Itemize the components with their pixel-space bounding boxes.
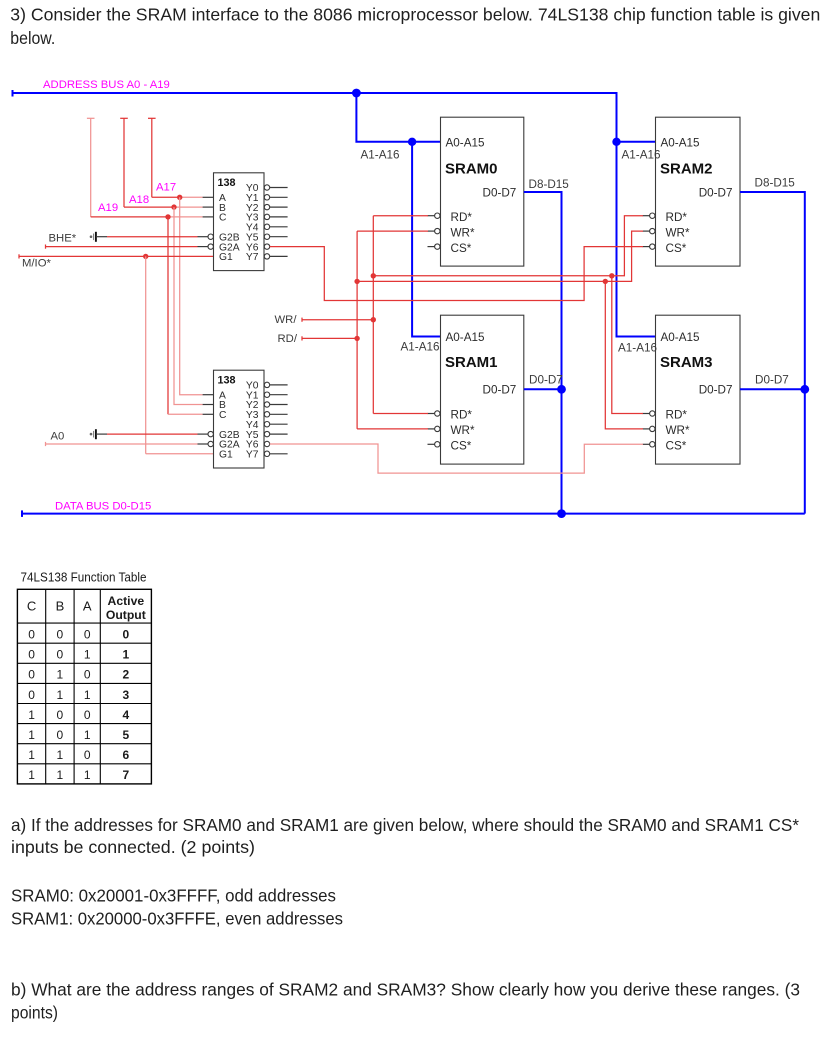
svg-text:C: C (27, 599, 36, 614)
wire bus branch down to SRAM3 A1-A16 (617, 142, 656, 337)
wire to U1 G2A (45, 245, 47, 249)
svg-text:74LS138 Function Table: 74LS138 Function Table (21, 571, 147, 585)
svg-text:0: 0 (57, 708, 64, 722)
wire A18 tap vertical (120, 117, 128, 119)
svg-text:A1-A16: A1-A16 (622, 148, 661, 161)
svg-text:RD*: RD* (666, 211, 688, 224)
svg-text:D8-D15: D8-D15 (529, 178, 570, 191)
SRAM chip SRAM2 box (656, 117, 741, 266)
svg-text:0: 0 (57, 728, 64, 742)
svg-text:7: 7 (123, 768, 130, 782)
SRAM3 control pin stubs and bubbles (643, 413, 650, 415)
SRAM0 control pin stubs and bubbles (428, 215, 435, 217)
function table grid (17, 589, 151, 784)
svg-text:A0-A15: A0-A15 (446, 331, 485, 344)
svg-text:Y7: Y7 (246, 252, 259, 263)
node WR cross branch (603, 279, 608, 284)
svg-text:D0-D7: D0-D7 (699, 384, 733, 397)
svg-text:A1-A16: A1-A16 (361, 148, 400, 161)
wire SRAM1 D0-D7 to data bus (524, 388, 562, 390)
SRAM1 control pin stubs and bubbles (428, 413, 435, 415)
svg-text:0: 0 (28, 688, 35, 702)
svg-text:SRAM2: SRAM2 (660, 160, 713, 177)
svg-text:0: 0 (28, 628, 35, 642)
svg-text:WR*: WR* (666, 226, 690, 239)
wire A17 down to decoder U2 pin A (180, 197, 203, 394)
U2 enable stubs and bubbles G2B G2A (198, 433, 209, 435)
svg-text:DATA BUS D0-D15: DATA BUS D0-D15 (55, 500, 151, 512)
node at SRAM2 address branch (612, 138, 620, 146)
svg-text:SRAM1: 0x20000-0x3FFFE, even a: SRAM1: 0x20000-0x3FFFE, even addresses (11, 908, 343, 928)
wire A19 tap vertical (87, 117, 95, 119)
U1 enable stubs and bubbles G2B G2A (198, 236, 209, 238)
svg-text:CS*: CS* (451, 242, 472, 255)
svg-text:G1: G1 (219, 252, 233, 263)
op-amp substitute: decoder U2 74LS138 box (214, 370, 265, 468)
wire SRAM2 D0-D7 to data bus D8-D15 (740, 192, 805, 514)
op-amp substitute: decoder U1 74LS138 box (214, 173, 265, 271)
svg-text:SRAM0: SRAM0 (445, 160, 498, 177)
node at SRAM0 address branch (408, 138, 416, 146)
svg-text:0: 0 (28, 648, 35, 662)
U1 input stubs A B C (203, 196, 214, 198)
svg-text:WR*: WR* (451, 424, 475, 437)
wire A19 down to decoder U2 pin C (167, 217, 169, 414)
wire bus to SRAM2 A0-A15 pin (617, 141, 656, 143)
node RD cross branch (609, 273, 614, 278)
wire SRAM1 WR* (357, 428, 428, 430)
wire M/IO* down to U2 G1 (145, 256, 147, 453)
svg-text:A18: A18 (129, 194, 149, 206)
svg-text:C: C (219, 410, 227, 421)
wire BHE* to U1 G2B (96, 236, 107, 238)
svg-text:1: 1 (84, 768, 91, 782)
svg-text:3: 3 (123, 688, 130, 702)
wire to U2 G2A (45, 442, 47, 446)
svg-text:0: 0 (57, 648, 64, 662)
svg-text:3) Consider the SRAM interface: 3) Consider the SRAM interface to the 80… (10, 5, 820, 25)
svg-text:1: 1 (28, 708, 35, 722)
svg-text:M/IO*: M/IO* (22, 257, 51, 269)
wire SRAM0 WR* vertical (357, 230, 428, 232)
U1 output bubbles and stubs Y0-Y7 (264, 185, 269, 190)
svg-text:1: 1 (28, 728, 35, 742)
svg-text:4: 4 (123, 708, 130, 722)
wire A17 to decoder U1 pin A (152, 196, 180, 198)
wire SRAM3 D0-D7 to data bus (740, 388, 805, 390)
SRAM chip SRAM0 box (441, 117, 524, 266)
svg-text:SRAM3: SRAM3 (660, 354, 713, 371)
svg-text:2: 2 (123, 668, 130, 682)
wire M/IO* to U1 G1 (18, 254, 20, 258)
svg-text:A17: A17 (156, 182, 176, 194)
svg-text:b) What are the address ranges: b) What are the address ranges of SRAM2 … (11, 979, 800, 999)
svg-text:WR/: WR/ (275, 314, 298, 326)
wire WR cross to SRAM2 WR* (357, 231, 643, 281)
BHE* connector symbol (90, 235, 93, 238)
junction node A19/U2-C (165, 214, 170, 219)
wire RD/ feed (301, 336, 303, 340)
node on WR cross wire left (354, 279, 359, 284)
node SRAM1 data join (557, 385, 566, 394)
svg-text:Y7: Y7 (246, 450, 259, 461)
svg-text:5: 5 (123, 728, 130, 742)
svg-text:SRAM0: 0x20001-0x3FFFF, odd ad: SRAM0: 0x20001-0x3FFFF, odd addresses (11, 885, 336, 905)
wire U1 Y6 to SRAM2 CS* (270, 247, 643, 301)
node data bus join (557, 509, 566, 518)
wire down to SRAM3 RD* (612, 276, 643, 414)
SRAM chip SRAM1 box (441, 315, 524, 464)
wire bus to SRAM0 A1-A16 (356, 93, 440, 142)
svg-text:CS*: CS* (666, 242, 687, 255)
svg-text:inputs be connected. (2 points: inputs be connected. (2 points) (11, 837, 255, 857)
wire A0 to U2 G2B (96, 433, 107, 435)
wire A17 tap vertical (148, 117, 156, 119)
svg-text:A0: A0 (51, 430, 65, 442)
svg-text:CS*: CS* (666, 440, 687, 453)
svg-text:0: 0 (84, 628, 91, 642)
address bus A0-A19 top wire (12, 90, 14, 97)
svg-text:WR*: WR* (666, 424, 690, 437)
svg-text:138: 138 (218, 375, 236, 387)
svg-text:A19: A19 (98, 202, 118, 214)
svg-text:D0-D7: D0-D7 (483, 384, 517, 397)
svg-text:0: 0 (28, 668, 35, 682)
svg-text:D0-D7: D0-D7 (529, 374, 563, 387)
svg-text:0: 0 (84, 708, 91, 722)
svg-text:RD*: RD* (451, 211, 473, 224)
wire SRAM1 RD* (373, 413, 428, 415)
wire SRAM0 D0-D7 to data bus D8-D15 (524, 192, 562, 514)
svg-text:Output: Output (106, 608, 146, 622)
svg-text:D0-D7: D0-D7 (699, 186, 733, 199)
svg-text:1: 1 (57, 748, 64, 762)
SRAM2 control pin stubs and bubbles (643, 215, 650, 217)
svg-text:C: C (219, 213, 227, 224)
wire down to SRAM3 WR* (605, 281, 643, 429)
svg-text:0: 0 (84, 748, 91, 762)
junction node M/IO* (143, 254, 148, 259)
svg-text:A1-A16: A1-A16 (618, 342, 657, 355)
svg-text:WR*: WR* (451, 226, 475, 239)
node SRAM3 data join (800, 385, 809, 394)
svg-text:1: 1 (57, 688, 64, 702)
node WR/ join (371, 317, 376, 322)
data bus D0-D15 wire (21, 510, 23, 517)
svg-text:1: 1 (84, 648, 91, 662)
svg-text:A0-A15: A0-A15 (661, 136, 700, 149)
svg-text:1: 1 (84, 728, 91, 742)
junction node A17/U2-A (177, 195, 182, 200)
wire WR/ feed (301, 318, 303, 322)
svg-text:B: B (56, 599, 65, 614)
wire SRAM0 RD* vertical (373, 215, 428, 217)
svg-text:D0-D7: D0-D7 (483, 186, 517, 199)
address bus junction node (352, 89, 361, 98)
node on RD cross wire left (371, 273, 376, 278)
svg-text:1: 1 (84, 688, 91, 702)
svg-text:Active: Active (108, 594, 145, 608)
svg-text:D0-D7: D0-D7 (755, 374, 789, 387)
wire A18 down to decoder U2 pin B (174, 207, 203, 404)
svg-text:0: 0 (123, 628, 130, 642)
svg-text:1: 1 (28, 768, 35, 782)
wire A19 to decoder U1 pin C (91, 216, 168, 218)
svg-text:SRAM1: SRAM1 (445, 354, 498, 371)
svg-text:D8-D15: D8-D15 (755, 177, 796, 190)
svg-text:A0-A15: A0-A15 (446, 136, 485, 149)
svg-text:A: A (83, 599, 92, 614)
wire A18 to decoder U1 pin B (124, 206, 174, 208)
svg-text:0: 0 (84, 668, 91, 682)
svg-text:A0-A15: A0-A15 (661, 331, 700, 344)
junction node A18/U2-B (171, 204, 176, 209)
U2 output bubbles and stubs Y0-Y7 (264, 382, 269, 387)
svg-text:below.: below. (10, 28, 55, 48)
SRAM chip SRAM3 box (656, 315, 741, 464)
node RD/ join (354, 336, 359, 341)
svg-text:a) If the addresses for SRAM0: a) If the addresses for SRAM0 and SRAM1 … (11, 815, 799, 835)
svg-text:G1: G1 (219, 450, 233, 461)
svg-text:1: 1 (57, 768, 64, 782)
svg-text:RD*: RD* (666, 409, 688, 422)
svg-text:ADDRESS BUS A0 - A19: ADDRESS BUS A0 - A19 (43, 79, 170, 91)
U2 input stubs A B C (203, 394, 214, 396)
svg-text:1: 1 (28, 748, 35, 762)
A0 connector symbol (90, 433, 93, 436)
svg-text:138: 138 (218, 177, 236, 189)
wire RD cross to SRAM2 RD* (373, 216, 643, 276)
svg-text:RD/: RD/ (278, 333, 298, 345)
wire U2 Y6 to SRAM3 CS* (270, 444, 643, 473)
svg-text:1: 1 (57, 668, 64, 682)
svg-text:A1-A16: A1-A16 (401, 341, 440, 354)
svg-text:RD*: RD* (451, 409, 473, 422)
svg-text:BHE*: BHE* (49, 232, 77, 244)
svg-text:6: 6 (123, 748, 130, 762)
svg-text:0: 0 (57, 628, 64, 642)
svg-text:1: 1 (123, 648, 130, 662)
svg-text:CS*: CS* (451, 440, 472, 453)
svg-text:points): points) (11, 1002, 58, 1022)
wire bus branch down to SRAM1 A1-A16 (412, 142, 440, 337)
